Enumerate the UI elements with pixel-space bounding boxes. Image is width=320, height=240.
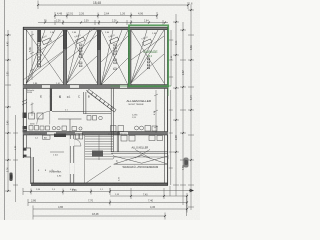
- wall lintel dark: [54, 134, 66, 137]
- wall garage divider 2: [97, 30, 100, 85]
- room4 ladder: [147, 58, 150, 69]
- dim line top B: [55, 12, 157, 19]
- stairwell lower-right wall: [117, 132, 118, 153]
- dim texts bottom: [31, 189, 156, 216]
- lower-left partition stub: [50, 151, 64, 153]
- shaft boxes: [76, 134, 83, 140]
- door arc corridor: [37, 111, 50, 124]
- dim line top A: [38, 1, 188, 10]
- room2 ladder: [79, 44, 82, 67]
- chimney block room2 top: [97, 30, 101, 50]
- stair diagonal rhombi: [86, 89, 116, 112]
- fixtures row mid-right: [111, 126, 158, 132]
- dim col left inner: [13, 115, 18, 202]
- dim line bottom 1 left: [23, 188, 110, 195]
- room3 ladder: [114, 44, 117, 70]
- stair lower treads: [85, 135, 114, 183]
- chimney block room1: [37, 30, 41, 42]
- stairwell right wall: [111, 89, 113, 153]
- lower-left room wall: [70, 135, 74, 183]
- fixtures row mid-left: [29, 126, 82, 131]
- dim line bottom 1 right: [110, 193, 187, 199]
- green tail right: [167, 86, 169, 96]
- dim slash ticks: [7, 4, 192, 217]
- dim line bottom 2: [28, 199, 187, 206]
- wall garage divider 3: [128, 30, 131, 87]
- room small texts: [50, 32, 157, 35]
- dim col right inner lower: [169, 90, 173, 185]
- washroom dim line: [114, 155, 168, 159]
- stair dark blob: [92, 151, 103, 157]
- left wall ticks: [22, 100, 27, 106]
- stairwell left wall: [84, 92, 86, 114]
- door arc lower-mid: [74, 139, 81, 146]
- corridor wall bar: [50, 89, 52, 112]
- keller inner dim: [154, 90, 158, 133]
- room1 inner dim: [30, 31, 34, 80]
- sub-room line: [58, 119, 82, 132]
- room1 tilted box: [40, 35, 51, 44]
- dim line bottom 3: [33, 206, 187, 213]
- long section diagonal: [23, 28, 95, 80]
- wall left outer: [22, 27, 24, 158]
- green highlight rect: [129, 25, 168, 86]
- room3 X cross: [101, 30, 128, 85]
- dim texts top: [44, 1, 193, 22]
- stairwell landing lines: [84, 112, 112, 114]
- green tail bottom: [111, 85, 172, 87]
- washer fixtures: [121, 136, 163, 142]
- dim texts right rotated: [171, 40, 193, 170]
- dim arrow right: [189, 189, 193, 192]
- room3 tilted box: [108, 34, 119, 43]
- dim col right inner: [169, 30, 173, 86]
- washroom slope V: [114, 156, 168, 165]
- wall mid horizontal 2: [23, 132, 168, 136]
- smudge blob right: [184, 158, 189, 168]
- room4 tilted box: [141, 36, 152, 45]
- dim line bottom 4: [33, 213, 165, 220]
- dim col right 3: [188, 5, 194, 210]
- dim line top C: [38, 20, 168, 25]
- scan noise overlay: [0, 0, 1, 1]
- wall right outer: [167, 27, 169, 185]
- paper edge line left: [4, 0, 6, 220]
- wall left notch: [23, 148, 30, 157]
- wall bottom outer: [31, 183, 168, 185]
- corridor dim small: [31, 103, 34, 117]
- stairwell lower fixtures: [87, 116, 102, 121]
- dim texts left rotated: [8, 41, 17, 172]
- smudge blob left: [9, 173, 12, 182]
- strip X small: [135, 150, 150, 159]
- room2 tilted box: [74, 34, 85, 43]
- dim col right 2: [180, 22, 186, 205]
- corridor partition: [52, 110, 84, 112]
- dim col left outer: [5, 30, 11, 191]
- dim connector right bottom: [186, 196, 188, 216]
- stair hall diagonal: [86, 166, 111, 183]
- dim col right 1: [173, 14, 179, 196]
- room2 X cross: [67, 30, 97, 83]
- dim line bottom washroom: [110, 186, 193, 196]
- wall garage divider 1: [63, 30, 66, 85]
- lower-left room fixtures: [43, 135, 51, 139]
- washroom top wall: [111, 152, 168, 153]
- room4 garage X cross: [131, 30, 164, 83]
- wall top outer: [23, 27, 168, 30]
- wall mid horizontal 1: [23, 85, 168, 89]
- wall left lower: [31, 157, 33, 184]
- meter cabinets: [29, 113, 35, 119]
- dark blocks left wall: [23, 113, 27, 119]
- room1 X cross: [27, 30, 64, 83]
